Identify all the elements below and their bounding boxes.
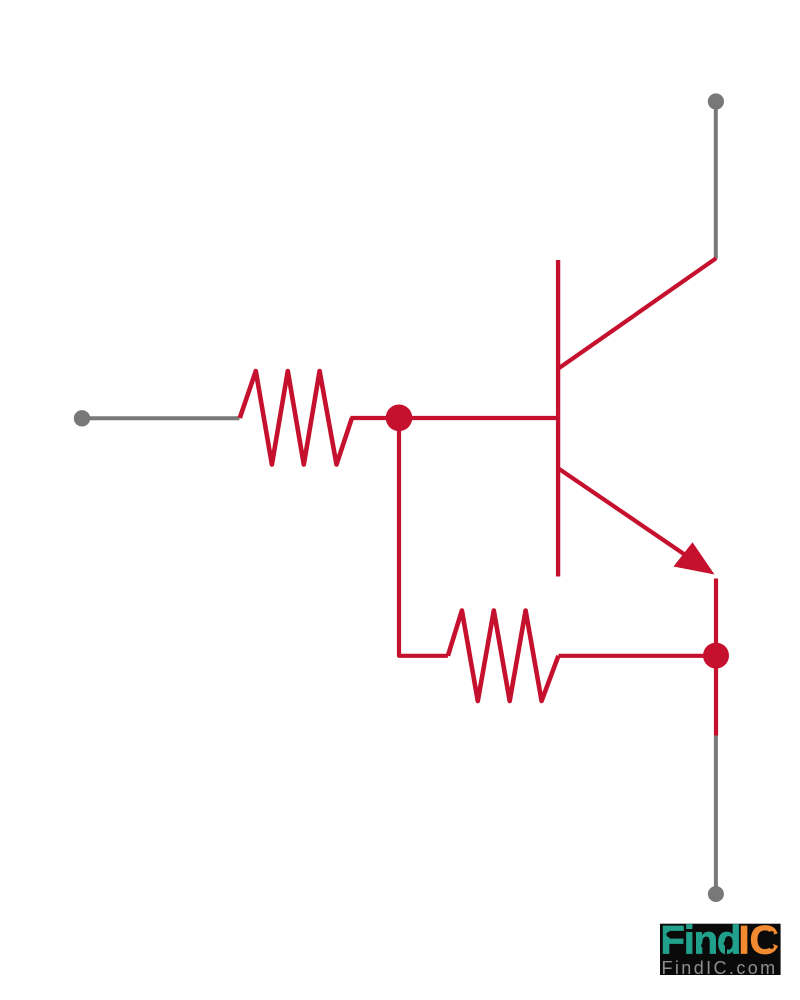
wire (base wire from R1 to transistor) (351, 416, 559, 420)
terminal T1 (top collector pin) (708, 93, 724, 109)
logo FindIC background (660, 924, 781, 975)
logo circuit dot on n (701, 943, 706, 954)
svg-text:FindIC.com: FindIC.com (662, 958, 778, 978)
node B (emitter node dot) (703, 643, 729, 669)
transistor Q1 collector stroke (557, 258, 716, 369)
resistor R2 (feedback resistor) (448, 611, 559, 702)
logo circuit dots on C (769, 931, 774, 949)
logo circuit dot on d (724, 941, 729, 954)
wire (red emitter vertical) (714, 579, 718, 736)
transistor Q1 emitter stroke (557, 468, 691, 559)
wire (R2 to node B) (558, 654, 716, 658)
terminal T2 (left base pin) (74, 410, 90, 426)
logo circuit dot on F (666, 932, 680, 937)
node A (base node dot) (386, 405, 413, 432)
wire (gray collector lead) (714, 103, 718, 259)
wire (node A down and right to R2) (399, 418, 448, 656)
terminal T3 (bottom emitter pin) (708, 886, 724, 902)
transistor Q1 emitter arrowhead (674, 542, 715, 574)
wire (gray base lead) (82, 416, 240, 420)
wire (gray emitter lead) (714, 736, 718, 889)
transistor Q1 base bar (556, 260, 560, 577)
resistor R1 (base resistor) (240, 371, 352, 465)
svg-text:Find: Find (661, 918, 741, 962)
